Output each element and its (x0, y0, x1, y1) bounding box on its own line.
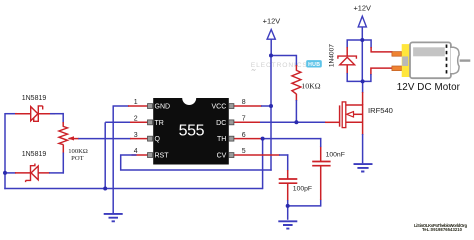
wire motor bottom link (371, 68, 393, 75)
wire left rail vertical (4, 113, 6, 189)
motor M1 shaft (460, 59, 471, 61)
wire pin2 TR (105, 121, 131, 123)
node motor-low/drain junction (361, 79, 365, 83)
motor M1 yellow block (402, 44, 410, 77)
wire pin1 GND (113, 105, 130, 107)
svg-text:12V DC Motor: 12V DC Motor (397, 82, 461, 93)
svg-text:TH: TH (217, 136, 226, 143)
wire pot bottom stem (62, 144, 64, 153)
svg-text:DC: DC (216, 120, 226, 127)
svg-text:1N5819: 1N5819 (22, 95, 47, 102)
wire pin4 RST loop (132, 154, 148, 156)
wire pot top stem (62, 113, 64, 123)
svg-text:POT: POT (71, 155, 83, 162)
svg-text:1N5819: 1N5819 (22, 151, 47, 158)
wire C1 top stem (320, 146, 322, 162)
svg-text:GND: GND (155, 104, 171, 111)
svg-text:+12V: +12V (353, 3, 371, 12)
motor M1 terminals (392, 52, 402, 71)
wire bottom rail (4, 188, 262, 190)
wire R1 bottom stem (295, 94, 297, 101)
node +12V/R1 junction (269, 54, 273, 58)
U1 pin squares right (8-5) (229, 104, 234, 158)
svg-text:10KΩ: 10KΩ (301, 81, 320, 90)
svg-text:VCC: VCC (212, 104, 227, 111)
svg-text:3: 3 (134, 132, 138, 139)
node C2/C1/ground junction (286, 204, 290, 208)
op-amp U1 555 timer body (153, 98, 229, 165)
WATERMARK (251, 60, 468, 232)
wire top to D3 (347, 40, 363, 48)
svg-text:Q: Q (155, 136, 161, 143)
wire +12V to R1 (271, 55, 296, 57)
svg-text:IRF540: IRF540 (368, 106, 393, 115)
wire pin1 vertical to ground (112, 106, 114, 214)
diode D2 1N5819 (points left) (26, 164, 39, 183)
svg-text:RST: RST (155, 153, 170, 160)
svg-text:+12V: +12V (263, 17, 281, 26)
motor M1 end cap (451, 47, 460, 74)
svg-text:4: 4 (134, 148, 138, 155)
svg-text:8: 8 (242, 99, 246, 106)
node left rail/D2 junction (3, 171, 7, 175)
power +12V arrow left (267, 30, 275, 40)
node R1/pin7/gate junction (294, 120, 298, 124)
wire pin6 TH (234, 138, 263, 140)
capacitor C1 100nF plates (312, 162, 330, 166)
svg-text:7: 7 (242, 116, 246, 123)
wire drain stem (362, 81, 364, 93)
wire C2 to C1 bottom link (288, 205, 321, 207)
wire C2 bottom stem (287, 183, 289, 201)
wire motor top link (362, 40, 371, 48)
svg-text:TeL:0919876543210: TeL:0919876543210 (422, 227, 463, 232)
svg-text:555: 555 (179, 123, 205, 140)
wire R1 top stem (295, 55, 297, 66)
motor M1 brush bar (402, 56, 408, 66)
wire +12V left stem (270, 39, 272, 56)
wire D2 horizontal (5, 172, 16, 174)
ground (under C2) (278, 221, 297, 228)
motor M1 dashed line (446, 45, 448, 77)
motor M1 body (410, 42, 451, 78)
diode D1 1N5819 (points right) (31, 106, 43, 121)
wire C1 bottom stem (320, 199, 322, 207)
svg-text:1: 1 (134, 99, 138, 106)
wire pin3 Q to pot wiper (69, 138, 80, 140)
ground (under IC, pin1) (104, 214, 123, 221)
svg-text:TR: TR (155, 120, 164, 127)
svg-text:100nF: 100nF (326, 152, 345, 159)
node VCC pin8 junction (269, 104, 273, 108)
node pin2/bottom rail junction (103, 187, 107, 191)
node +12V right junction (360, 38, 364, 42)
svg-text:5: 5 (242, 148, 246, 155)
svg-text:CV: CV (217, 153, 227, 160)
U1 pin squares left (1-4) (148, 104, 153, 158)
wire top-left horizontal to D1 (5, 113, 17, 115)
wire Q1 right vertical (362, 104, 364, 135)
svg-text:ELECTRONICS: ELECTRONICS (251, 62, 308, 69)
ground (Q1 source) (354, 164, 373, 171)
svg-text:6: 6 (242, 132, 246, 139)
wire ground stub C2 (287, 206, 289, 220)
wire pin7 DC to gate (234, 121, 261, 123)
capacitor C2 100pF plates (279, 179, 298, 183)
svg-text:2: 2 (134, 116, 138, 123)
wire pin5 CV (234, 154, 280, 156)
node pin6 junction (261, 137, 265, 141)
potentiometer R2 100K zigzag (59, 126, 68, 144)
svg-text:100KΩ: 100KΩ (68, 148, 88, 155)
svg-text:1N4007: 1N4007 (329, 44, 336, 67)
wire D3 bottom stem (346, 65, 348, 74)
diode D3 1N4007 (vertical, points up) (338, 56, 357, 65)
motor M1 gray band (413, 47, 445, 56)
wire +12V rail vertical (270, 56, 272, 171)
wire pin6 vertical (262, 139, 264, 190)
wire C2 top stem (287, 154, 289, 171)
svg-text:HUB: HUB (308, 62, 320, 68)
wire pin8 VCC (234, 105, 262, 107)
power +12V arrow right (358, 16, 366, 27)
wire junction down to motor node (361, 40, 363, 81)
wire +12V right stem (361, 27, 363, 40)
wire pin2 vertical (104, 122, 106, 188)
svg-text:100pF: 100pF (293, 185, 312, 192)
resistor R1 10K zigzag (292, 70, 301, 94)
transistor Q1 IRF540 MOSFET (340, 102, 363, 128)
potentiometer wiper arrow (68, 136, 74, 140)
